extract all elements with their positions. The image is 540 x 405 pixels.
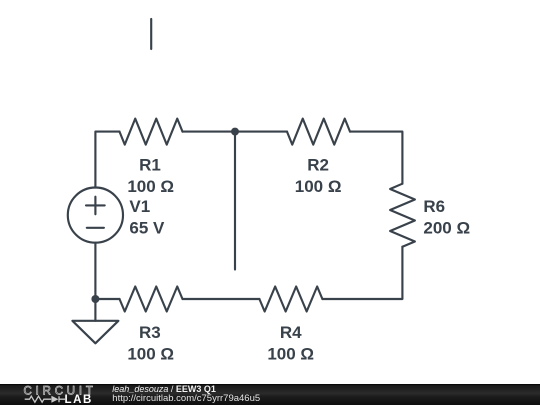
resistor R2 xyxy=(287,119,350,145)
label R6 xyxy=(423,197,470,237)
logo diode glyph xyxy=(51,396,58,403)
node junction top xyxy=(231,128,239,136)
label V1 xyxy=(129,197,165,238)
svg-text:100 Ω: 100 Ω xyxy=(295,177,342,196)
wire top stub xyxy=(150,19,152,49)
voltage source V1 xyxy=(68,188,123,243)
wire R2 to R6 xyxy=(350,132,402,184)
svg-text:65 V: 65 V xyxy=(129,219,165,238)
svg-text:100 Ω: 100 Ω xyxy=(127,177,174,196)
wire R1 to R2 xyxy=(183,131,288,133)
node junction bottom left xyxy=(91,295,99,303)
svg-text:R2: R2 xyxy=(307,155,329,174)
wire middle vertical xyxy=(234,132,236,270)
footer title xyxy=(112,384,216,394)
svg-text:R1: R1 xyxy=(139,155,161,174)
ground xyxy=(72,299,118,343)
svg-text:V1: V1 xyxy=(129,197,150,216)
wire left rail bottom xyxy=(94,243,96,299)
resistor R3 xyxy=(120,287,183,312)
svg-text:LAB: LAB xyxy=(65,394,93,405)
wire R6 to R4 xyxy=(322,247,402,299)
svg-text:R6: R6 xyxy=(423,197,445,216)
svg-text:100 Ω: 100 Ω xyxy=(267,344,314,363)
svg-text:200 Ω: 200 Ω xyxy=(423,218,470,237)
label R2 xyxy=(295,155,342,196)
resistor R6 xyxy=(390,184,415,247)
wire junction to R3 xyxy=(95,298,119,300)
label R1 xyxy=(127,155,174,196)
resistor R1 xyxy=(120,119,183,145)
wire left rail top xyxy=(95,132,119,188)
svg-text:R4: R4 xyxy=(280,323,302,342)
CircuitLab logo xyxy=(0,384,100,405)
label R3 xyxy=(127,323,174,363)
wire R3 to R4 xyxy=(183,298,260,300)
logo resistor glyph xyxy=(25,396,65,402)
footer url xyxy=(112,393,260,404)
svg-text:100 Ω: 100 Ω xyxy=(127,344,174,363)
resistor R4 xyxy=(259,287,322,312)
svg-text:R3: R3 xyxy=(139,323,161,342)
label R4 xyxy=(267,323,314,363)
footer bar xyxy=(0,384,540,405)
